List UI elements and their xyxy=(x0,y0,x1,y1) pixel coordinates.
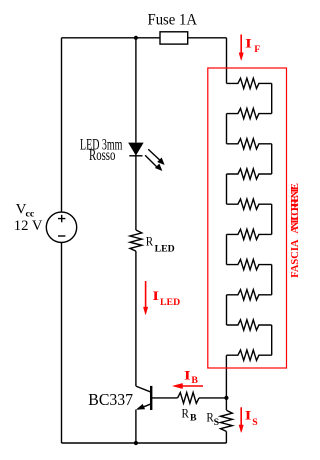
svg-text:ANTICORRENTE: ANTICORRENTE xyxy=(290,183,301,234)
resistor R_LED xyxy=(130,230,142,251)
wire top rail xyxy=(62,37,227,39)
wire R2-R3 left xyxy=(226,114,228,144)
svg-text:I: I xyxy=(245,407,252,422)
current arrow I_S xyxy=(239,407,243,432)
wire base lead xyxy=(151,397,177,399)
wire serpentine exit xyxy=(225,355,227,398)
svg-text:S: S xyxy=(214,417,220,428)
resistor R_B xyxy=(178,393,199,404)
resistor chain R4 xyxy=(227,169,272,179)
wire R7-R8 right xyxy=(271,265,273,295)
wire R_S to bottom rail xyxy=(225,431,227,443)
wire left rail top xyxy=(61,38,63,212)
svg-text:F: F xyxy=(254,44,260,55)
node emitter-bottom junction xyxy=(134,441,138,445)
wire R_B to junction xyxy=(199,397,226,399)
node top-LED junction xyxy=(134,36,138,40)
wire R1-R2 right xyxy=(271,83,273,113)
voltage source V1 xyxy=(46,212,76,242)
wire R9-R10 right xyxy=(271,325,273,355)
current arrow I_LED xyxy=(143,281,147,315)
wire junction to R_S xyxy=(225,398,227,410)
wire R3-R4 right xyxy=(271,144,273,174)
svg-text:B: B xyxy=(191,375,198,386)
wire R5-R6 right xyxy=(271,204,273,234)
resistor chain R6 xyxy=(227,229,272,239)
fuse F1 xyxy=(160,32,188,44)
wire R4-R5 left xyxy=(226,174,228,204)
svg-text:12 V: 12 V xyxy=(14,218,43,234)
LED D1 xyxy=(129,143,164,170)
wire emitter to bottom rail xyxy=(135,410,137,444)
wire R8-R9 left xyxy=(226,295,228,325)
wire LED to R_LED xyxy=(135,155,137,230)
resistor chain R1 xyxy=(227,78,272,88)
wire R6-R7 left xyxy=(226,234,228,264)
svg-text:R: R xyxy=(146,234,154,249)
svg-text:LED: LED xyxy=(155,243,175,254)
svg-text:LED: LED xyxy=(160,297,180,308)
svg-text:Rosso: Rosso xyxy=(89,147,116,164)
wire R_LED to transistor xyxy=(135,251,137,386)
wire LED branch upper xyxy=(135,38,137,143)
svg-text:FASCIA: FASCIA xyxy=(290,239,301,278)
red box fascia anticorrente xyxy=(208,68,287,368)
resistor chain R9 xyxy=(227,320,272,330)
svg-text:Fuse 1A: Fuse 1A xyxy=(148,12,198,29)
resistor chain R2 xyxy=(227,108,272,118)
resistor chain R5 xyxy=(227,199,272,209)
resistor chain R10 xyxy=(227,350,272,360)
wire left rail bottom xyxy=(61,243,63,444)
wire bottom rail xyxy=(62,442,227,444)
resistor chain R3 xyxy=(227,139,272,149)
svg-text:B: B xyxy=(190,413,197,424)
current arrow I_B xyxy=(173,383,203,388)
current arrow I_F xyxy=(239,35,243,61)
resistor chain R8 xyxy=(227,290,272,300)
node base-right junction xyxy=(224,396,228,400)
wire serpentine input xyxy=(226,38,228,84)
svg-text:S: S xyxy=(252,417,258,428)
svg-text:BC337: BC337 xyxy=(88,390,133,409)
svg-text:I: I xyxy=(245,36,252,51)
transistor Q1 BC337 xyxy=(136,386,151,410)
svg-text:R: R xyxy=(182,406,190,421)
resistor chain R7 xyxy=(227,259,272,269)
svg-text:I: I xyxy=(184,367,191,382)
serpentine resistor chain xyxy=(227,78,272,360)
svg-text:I: I xyxy=(152,288,159,303)
resistor R_S xyxy=(220,410,232,431)
